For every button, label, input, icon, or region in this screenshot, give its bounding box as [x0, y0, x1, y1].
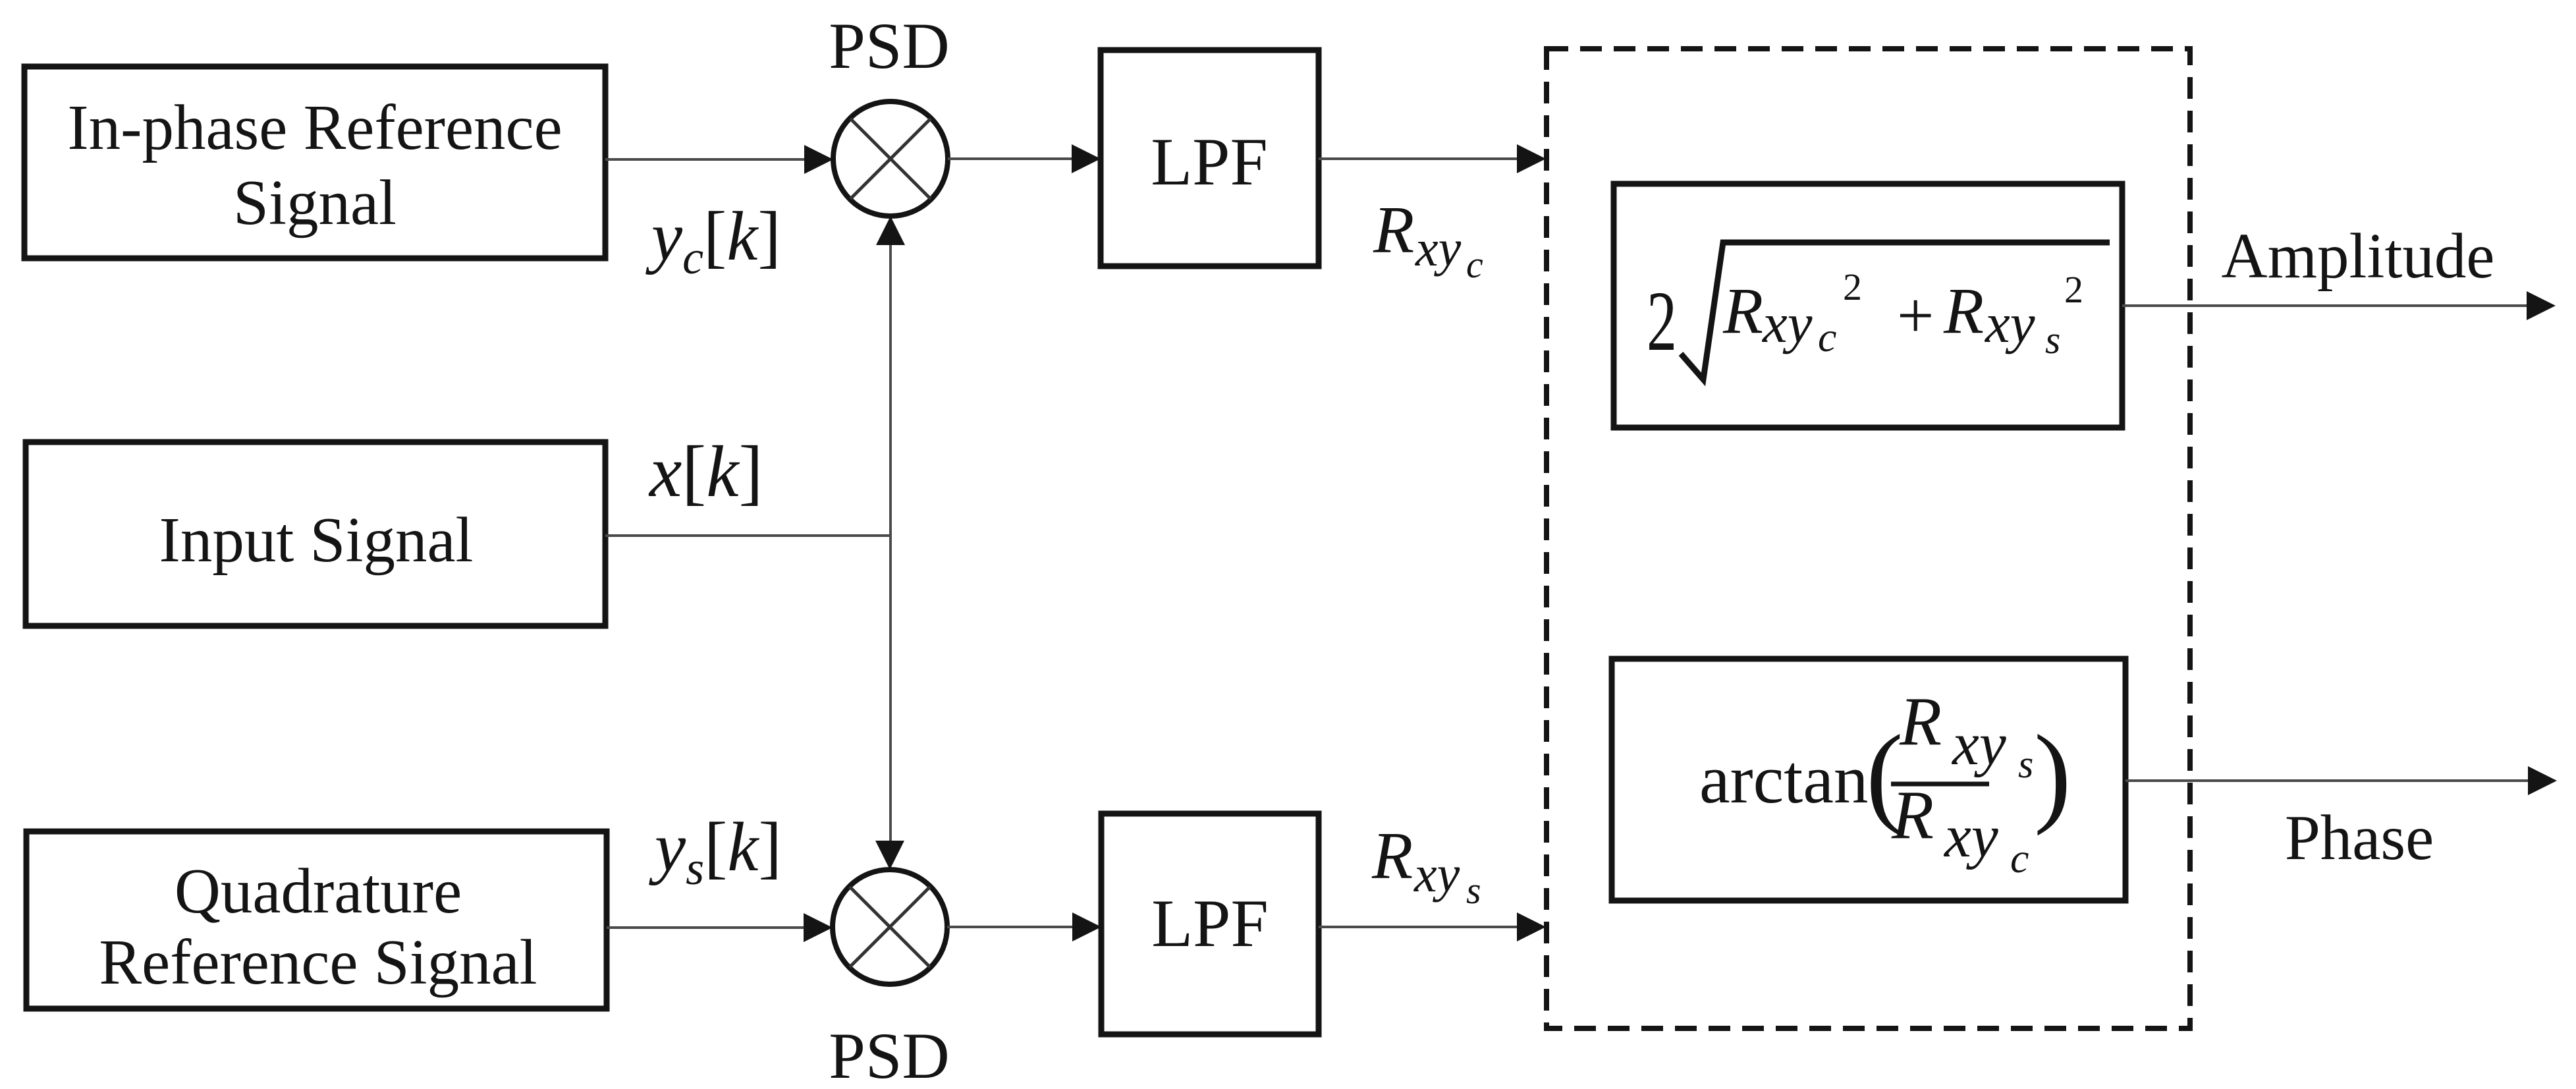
svg-text:s: s: [2045, 318, 2060, 362]
svg-text:PSD: PSD: [829, 1019, 949, 1089]
svg-text:xy: xy: [1943, 802, 1998, 870]
svg-text:ys[k]: ys[k]: [649, 808, 782, 895]
svg-text:): ): [2034, 712, 2071, 836]
block LPF bottom: [1101, 814, 1319, 1034]
svg-text:R: R: [1891, 776, 1934, 853]
svg-text:+: +: [1897, 279, 1934, 352]
label Rxyc: [1373, 193, 1483, 286]
block LPF top: [1101, 50, 1319, 266]
svg-text:In-phase Reference: In-phase Reference: [67, 92, 562, 163]
svg-text:Reference Signal: Reference Signal: [99, 927, 537, 997]
svg-text:LPF: LPF: [1151, 886, 1268, 961]
svg-text:s: s: [2018, 742, 2033, 786]
svg-text:R: R: [1373, 193, 1414, 267]
svg-text:xy: xy: [1413, 845, 1460, 903]
svg-text:xy: xy: [1415, 219, 1462, 277]
svg-text:yc[k]: yc[k]: [645, 198, 781, 284]
wire ys from Quadrature box to bottom multiplier: [607, 913, 833, 942]
svg-text:Input Signal: Input Signal: [159, 505, 474, 575]
svg-text:xy: xy: [1761, 293, 1813, 354]
multiplier PSD top: [833, 101, 948, 216]
wire top multiplier to top LPF: [948, 144, 1101, 173]
svg-text:R: R: [1371, 819, 1413, 893]
svg-text:xy: xy: [1984, 293, 2035, 354]
svg-text:R: R: [1722, 274, 1763, 347]
block: Input Signal: [26, 442, 605, 626]
wire vertical down to bottom multiplier: [875, 536, 904, 870]
block: arctan formula: [1612, 659, 2125, 901]
wire vertical up to top multiplier: [876, 216, 905, 536]
svg-text:2: 2: [1843, 265, 1862, 308]
wire amplitude out: [2122, 291, 2556, 320]
wire bottom multiplier to bottom LPF: [947, 912, 1101, 941]
wire bottom LPF to dashed box: [1319, 912, 1546, 941]
wire phase out: [2125, 766, 2557, 795]
svg-text:xy: xy: [1951, 710, 2006, 777]
block: amplitude formula: [1614, 184, 2122, 428]
svg-text:R: R: [1943, 274, 1984, 347]
svg-text:R: R: [1899, 683, 1942, 760]
svg-text:Quadrature: Quadrature: [175, 856, 462, 926]
svg-text:Phase: Phase: [2285, 802, 2434, 873]
svg-text:Amplitude: Amplitude: [2222, 221, 2495, 291]
svg-text:c: c: [2010, 835, 2029, 881]
svg-text:arctan: arctan: [1699, 740, 1868, 818]
svg-text:s: s: [1466, 869, 1481, 912]
svg-text:LPF: LPF: [1151, 125, 1267, 200]
svg-text:Signal: Signal: [233, 167, 397, 238]
svg-text:c: c: [1466, 243, 1483, 286]
svg-text:2: 2: [1647, 274, 1677, 369]
wire x[k] from Input Signal to junction: [605, 534, 891, 537]
svg-text:PSD: PSD: [829, 9, 949, 82]
multiplier PSD bottom: [833, 870, 947, 984]
svg-text:c: c: [1818, 314, 1836, 360]
svg-text:x[k]: x[k]: [648, 432, 763, 513]
wire top LPF to dashed box: [1319, 144, 1546, 173]
block: Quadrature Reference Signal: [26, 831, 607, 1009]
formula 2*sqrt(Rxyc^2+Rxys^2): [1647, 242, 2110, 379]
formula arctan(Rxys/Rxyc): [1699, 683, 2071, 881]
dashed processing box: [1547, 49, 2190, 1028]
wire yc from In-phase box to top multiplier: [605, 145, 833, 174]
block: In-phase Reference Signal: [24, 67, 605, 258]
label Rxys: [1371, 819, 1481, 912]
svg-text:2: 2: [2064, 268, 2083, 311]
